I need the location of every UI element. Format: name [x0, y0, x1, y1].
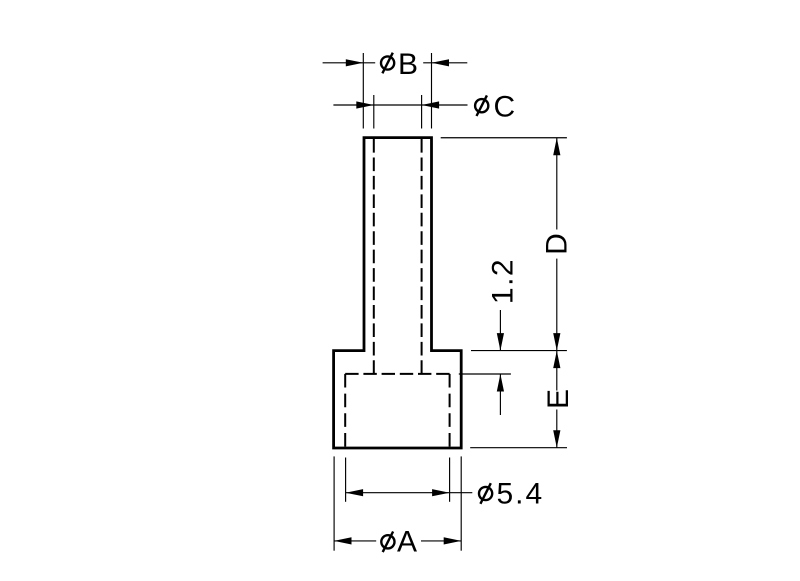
arrow øB right (points left) — [432, 59, 450, 66]
extension line øA left — [333, 456, 335, 550]
svg-text:C: C — [494, 91, 516, 124]
arrowheads — [334, 59, 560, 544]
dim øC line — [333, 104, 467, 106]
hidden line: counterbore top — [345, 373, 449, 375]
dim E line — [556, 351, 558, 391]
svg-text:E: E — [542, 389, 575, 409]
leader hole-step level — [459, 373, 511, 375]
diameter symbol for øA — [381, 532, 394, 553]
arrow 1.2 bottom (points up) — [497, 374, 504, 392]
svg-text:1.2: 1.2 — [486, 258, 519, 304]
arrow øA left (points left) — [334, 537, 352, 544]
part outline (T-shaped body) — [334, 138, 462, 448]
svg-text:B: B — [398, 48, 418, 81]
extension line øC right — [421, 95, 423, 129]
extension line øA right — [460, 456, 462, 550]
svg-text:D: D — [541, 233, 574, 255]
dim ø5.4 line — [346, 492, 473, 494]
arrow ø5.4 right (points right) — [432, 489, 450, 496]
arrow D bottom (points down) — [553, 333, 560, 351]
hidden line: counterbore left — [344, 374, 346, 447]
hidden line: counterbore right — [449, 374, 451, 447]
hidden line: stem bore left — [373, 139, 375, 374]
extension line øB right — [431, 53, 433, 129]
leader shoulder level — [471, 350, 567, 352]
dimension lines and extension lines — [323, 53, 567, 551]
arrow E top (points up) — [553, 351, 560, 369]
svg-text:A: A — [397, 526, 417, 559]
dim 1.2 line — [499, 310, 501, 351]
arrow ø5.4 left (points left) — [346, 489, 364, 496]
extension line ø5.4 left — [345, 458, 347, 502]
diameter symbol for øC — [475, 95, 488, 116]
leader top (part top level) — [441, 137, 567, 139]
leader base bottom level — [470, 447, 567, 449]
arrow E bottom (points down) — [553, 430, 560, 448]
dim D line — [556, 138, 558, 230]
extension line ø5.4 right — [449, 458, 451, 502]
extension line øB left — [362, 53, 364, 129]
svg-text:5.4: 5.4 — [497, 478, 545, 511]
hidden hole lines (dashed) — [345, 139, 449, 447]
extension line øC left — [373, 95, 375, 129]
arrow 1.2 top (points down) — [497, 333, 504, 351]
hidden line: stem bore right — [421, 139, 423, 374]
dim øA line — [334, 540, 376, 542]
arrow øA right (points right) — [444, 537, 462, 544]
dim øB line — [323, 62, 376, 64]
arrow D top (points up) — [553, 138, 560, 156]
arrow øB left (points right) — [346, 59, 364, 66]
arrow øC left (points right) — [356, 101, 374, 108]
diameter symbol for ø5.4 — [479, 483, 492, 504]
diameter symbol for øB — [381, 53, 394, 74]
arrow øC right (points left) — [422, 101, 440, 108]
